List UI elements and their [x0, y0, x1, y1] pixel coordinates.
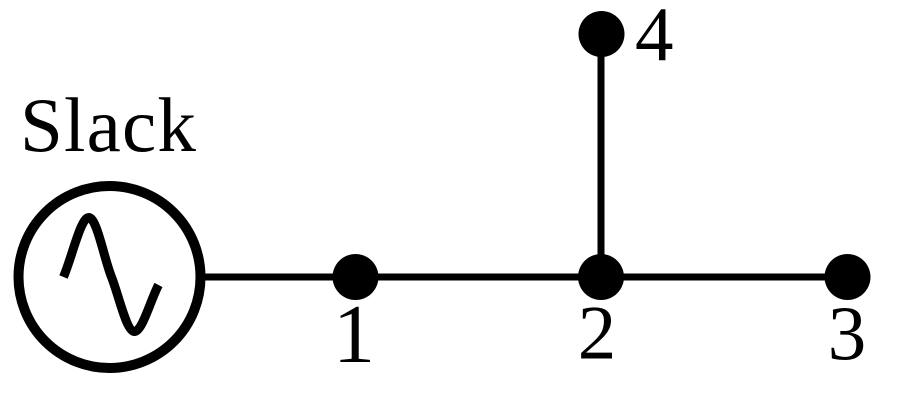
node 4 (bus dot)	[579, 11, 625, 57]
generator G1: slack AC source circle	[19, 186, 201, 368]
svg-text:3: 3	[828, 290, 867, 376]
node 3 (bus dot)	[825, 254, 871, 300]
wire: horizontal bus line from slack source to node 3	[203, 274, 848, 281]
sine symbol inside source	[64, 217, 159, 331]
svg-text:1: 1	[333, 288, 375, 381]
node 2 (bus dot)	[578, 254, 624, 300]
svg-text:4: 4	[635, 0, 674, 77]
wire: vertical branch from node 2 up to node 4	[598, 34, 605, 277]
svg-text:Slack: Slack	[20, 82, 197, 168]
node 1 (bus dot)	[333, 254, 379, 300]
svg-text:2: 2	[578, 290, 617, 376]
